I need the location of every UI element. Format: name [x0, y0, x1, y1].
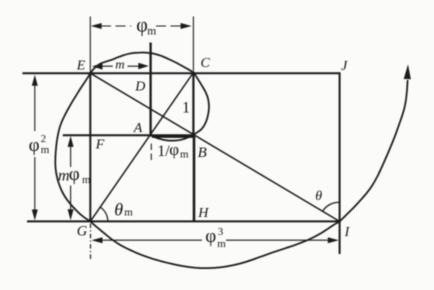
wire vertical D-A — [149, 43, 151, 136]
wire horizontal F-A — [63, 134, 151, 136]
wire vertical extension above C — [192, 17, 194, 72]
arrowhead m*phi_m top — [68, 136, 74, 147]
arrowhead m left — [92, 63, 103, 69]
svg-text:φ: φ — [136, 15, 148, 37]
svg-text:θ: θ — [114, 200, 123, 220]
svg-text:H: H — [197, 206, 209, 221]
arrowhead phi_m right — [181, 23, 192, 29]
svg-text:m: m — [180, 149, 189, 161]
dimension m*phi_m shafts — [70, 146, 72, 210]
svg-text:E: E — [76, 59, 86, 74]
svg-text:m: m — [217, 238, 226, 250]
svg-text:φ: φ — [69, 164, 80, 185]
svg-text:m: m — [124, 207, 133, 219]
dimension m shafts — [102, 65, 139, 67]
svg-text:θ: θ — [315, 189, 322, 204]
arrowhead m right — [138, 63, 149, 69]
wire vertical C-B segment labelled 1 — [192, 72, 194, 135]
svg-text:J: J — [341, 59, 348, 74]
diagonal G-C — [90, 73, 193, 222]
arrowhead phi_m left — [91, 23, 102, 29]
svg-text:F: F — [95, 138, 105, 153]
svg-text:D: D — [134, 80, 145, 95]
dimension line A-B overlap — [152, 136, 193, 138]
arrowhead phi_m^3 right — [328, 237, 339, 243]
svg-text:m: m — [41, 144, 50, 156]
arrowhead m*phi_m bottom — [68, 209, 74, 220]
svg-text:A: A — [133, 121, 143, 136]
arrowhead AB dim left — [151, 135, 160, 139]
arrowhead AB dim right — [184, 135, 193, 139]
svg-text:1: 1 — [182, 99, 190, 116]
svg-text:φ: φ — [169, 140, 179, 159]
arrowhead phi_m^3 left — [92, 237, 103, 243]
arrowhead phi_m^2 top — [32, 75, 38, 86]
wire top horizontal E-C-J — [22, 72, 339, 74]
dash-dot line below G — [90, 224, 92, 262]
diagonal E-I — [90, 73, 339, 221]
svg-text:3: 3 — [218, 226, 224, 238]
wire vertical B-H — [193, 135, 196, 222]
wire bottom horizontal G-I — [27, 220, 340, 222]
arc theta at I — [323, 202, 340, 211]
svg-text:φ: φ — [29, 135, 40, 156]
dimension phi_m^3 shafts — [102, 239, 329, 241]
wire horizontal A-B thick — [151, 134, 194, 136]
wire left vertical extension above E — [89, 17, 91, 73]
wire dashed extension below A — [150, 144, 152, 164]
wire left vertical E-G — [89, 72, 91, 221]
dimension phi_m^2 shafts — [34, 85, 36, 210]
svg-text:m: m — [82, 174, 91, 186]
svg-text:G: G — [77, 223, 88, 239]
wire right vertical J-I — [339, 72, 341, 254]
svg-text:m: m — [115, 56, 124, 71]
svg-text:B: B — [198, 145, 207, 161]
arrowhead phi_m^2 bottom — [32, 210, 38, 221]
svg-text:φ: φ — [205, 226, 216, 247]
spiral curve — [55, 53, 407, 269]
arc theta_m at G — [100, 207, 108, 221]
svg-text:2: 2 — [41, 133, 47, 145]
svg-text:m: m — [147, 25, 156, 37]
svg-text:C: C — [201, 56, 211, 71]
dimension phi_m top shafts — [101, 25, 181, 27]
arrowhead spiral end — [404, 64, 411, 79]
